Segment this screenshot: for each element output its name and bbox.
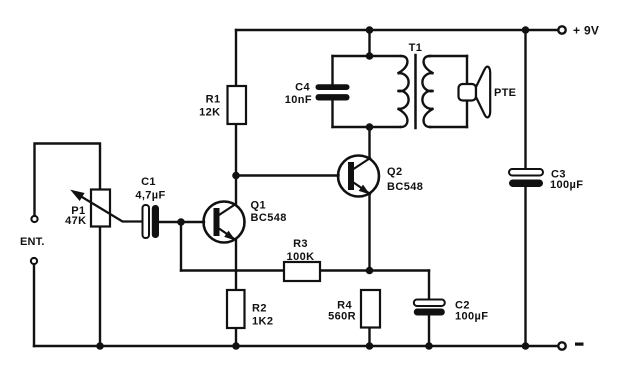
label C3 value bbox=[550, 169, 583, 192]
wire secondary bottom bbox=[430, 126, 467, 128]
wire C4 branch top bbox=[331, 56, 333, 85]
wire Q2 collector bbox=[368, 127, 370, 158]
wire rail to transformer top bbox=[368, 30, 370, 56]
wire R4 to rail bbox=[368, 328, 370, 347]
svg-text:100µF: 100µF bbox=[455, 311, 488, 323]
svg-text:R2: R2 bbox=[252, 303, 267, 315]
potentiometer P1 body bbox=[91, 190, 110, 227]
wire input top loop bbox=[35, 144, 101, 216]
label R3 value bbox=[287, 238, 315, 263]
resistor R3 bbox=[284, 262, 320, 281]
wire right rail lower bbox=[524, 187, 526, 346]
svg-text:T1: T1 bbox=[409, 42, 423, 54]
label R1 value bbox=[199, 94, 220, 119]
label C4 value bbox=[285, 82, 312, 107]
node C3 ground bbox=[522, 342, 530, 350]
wire Q2 emitter bbox=[368, 194, 370, 271]
wire bottom rail bbox=[34, 345, 557, 347]
wire primary loop top bbox=[333, 55, 401, 57]
wire R2 to rail bbox=[235, 328, 237, 346]
svg-text:C1: C1 bbox=[141, 176, 156, 188]
resistor R4 bbox=[361, 290, 380, 328]
svg-text:BC548: BC548 bbox=[387, 181, 423, 193]
wire C1 to Q1 base bbox=[159, 221, 204, 223]
svg-text:R3: R3 bbox=[293, 238, 308, 250]
label C2 value bbox=[455, 300, 488, 323]
speaker PTE cone bbox=[476, 67, 490, 118]
capacitor C3 bottom plate bbox=[509, 180, 543, 188]
node rail-right bbox=[522, 26, 530, 34]
wire primary loop bottom bbox=[333, 126, 401, 128]
svg-text:Q2: Q2 bbox=[387, 166, 402, 178]
transformer core T1 bbox=[414, 55, 417, 128]
terminal ENT bottom bbox=[31, 258, 37, 264]
node R2 ground bbox=[232, 342, 240, 350]
wire C2 to rail bbox=[428, 316, 430, 347]
wire C4 branch bottom bbox=[331, 101, 333, 128]
node C2 ground bbox=[425, 342, 433, 350]
potentiometer P1 wiper bbox=[77, 194, 143, 222]
node Q1 base bbox=[177, 218, 185, 226]
svg-text:47K: 47K bbox=[65, 215, 86, 227]
svg-text:C4: C4 bbox=[295, 82, 310, 94]
label R4 value bbox=[328, 300, 356, 323]
wire Q1 to Q2 base row bbox=[236, 174, 339, 176]
node P1 ground bbox=[96, 342, 104, 350]
wire feedback row left bbox=[181, 269, 284, 271]
wire Q1 emitter to R2 bbox=[235, 240, 237, 290]
capacitor C3 top plate bbox=[509, 169, 543, 176]
node R4 ground bbox=[366, 342, 374, 350]
capacitor C1 left plate bbox=[143, 205, 150, 238]
svg-text:PTE: PTE bbox=[494, 87, 516, 99]
wire P1 bottom to rail bbox=[99, 227, 101, 347]
svg-text:100µF: 100µF bbox=[550, 179, 583, 191]
svg-text:100K: 100K bbox=[287, 251, 315, 263]
terminal +9V bbox=[558, 26, 565, 33]
wire C2 drop bbox=[428, 271, 430, 300]
wire base junction drop bbox=[180, 222, 182, 271]
label minus bbox=[575, 343, 584, 346]
node rail-transformer bbox=[366, 26, 374, 34]
svg-text:560R: 560R bbox=[328, 311, 356, 323]
label R2 value bbox=[252, 303, 273, 328]
primary coil L1 bbox=[398, 56, 409, 127]
node Q1 collector bbox=[232, 172, 240, 180]
capacitor C2 bottom plate bbox=[414, 309, 445, 316]
wire input bottom terminal to rail bbox=[33, 266, 35, 347]
secondary coil L2 bbox=[422, 56, 433, 127]
transistor Q2 bbox=[338, 156, 379, 197]
capacitor C1 right plate bbox=[152, 205, 159, 238]
svg-text:Q1: Q1 bbox=[251, 200, 266, 212]
label C1 value bbox=[135, 176, 165, 202]
terminal ENT top bbox=[31, 216, 37, 222]
resistor R2 bbox=[227, 290, 245, 328]
svg-text:10nF: 10nF bbox=[285, 94, 312, 106]
wire secondary right side bbox=[466, 56, 468, 127]
node Q2 emitter bbox=[366, 267, 374, 275]
svg-text:12K: 12K bbox=[199, 107, 220, 119]
capacitor C2 top plate bbox=[414, 300, 445, 307]
node primary top bbox=[366, 52, 374, 60]
svg-text:BC548: BC548 bbox=[251, 212, 287, 224]
wire top rail bbox=[236, 29, 557, 31]
wire feedback row right bbox=[320, 269, 429, 271]
label Q1 bbox=[251, 200, 287, 225]
speaker PTE driver box bbox=[459, 84, 477, 101]
label P1 value bbox=[65, 205, 86, 227]
wire R1 top drop bbox=[235, 30, 237, 86]
capacitor C4 bottom plate bbox=[316, 94, 350, 100]
svg-text:R1: R1 bbox=[206, 94, 221, 106]
wire secondary top bbox=[430, 55, 467, 57]
potentiometer P1 arrowhead bbox=[72, 191, 84, 201]
capacitor C4 top plate bbox=[316, 84, 350, 90]
svg-text:ENT.: ENT. bbox=[20, 236, 45, 248]
terminal minus bbox=[558, 342, 565, 349]
resistor R1 bbox=[228, 86, 247, 124]
svg-text:1K2: 1K2 bbox=[252, 316, 273, 328]
label Q2 bbox=[387, 166, 423, 193]
node primary bottom bbox=[366, 123, 374, 131]
transistor Q1 bbox=[204, 202, 245, 243]
svg-text:+ 9V: + 9V bbox=[573, 24, 599, 38]
svg-text:4,7µF: 4,7µF bbox=[135, 190, 165, 202]
wire right rail upper bbox=[524, 30, 526, 169]
wire Q1 collector bbox=[235, 124, 237, 204]
